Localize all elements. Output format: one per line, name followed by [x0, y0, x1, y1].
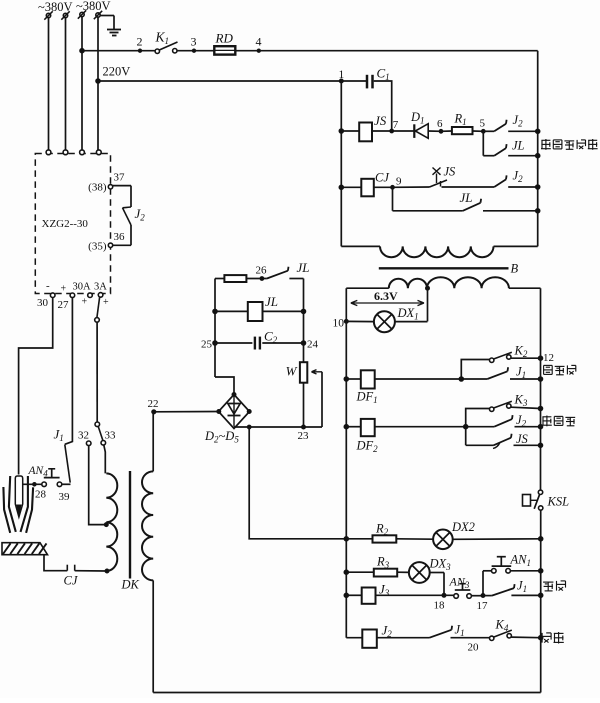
svg-text:W: W [286, 364, 298, 379]
label protective-gas-delay [541, 139, 598, 150]
node 24 [307, 339, 319, 351]
svg-text:DX2: DX2 [451, 520, 475, 534]
svg-text:6.3V: 6.3V [374, 289, 398, 303]
svg-text:220V: 220V [103, 65, 131, 79]
contact JS (delayed close) [466, 432, 541, 449]
relay coil J2 [346, 623, 429, 648]
wire osc left vertical [213, 279, 218, 378]
svg-text:5: 5 [480, 118, 486, 130]
node 12 label [543, 352, 554, 364]
potentiometer W [286, 362, 322, 427]
label ~380V (lines 1-2) [38, 0, 73, 14]
wire selector down [96, 322, 98, 422]
node 6 [437, 118, 443, 133]
node 25 [201, 339, 213, 351]
svg-text:C1: C1 [377, 66, 390, 83]
svg-text:AN1: AN1 [510, 553, 531, 569]
svg-text:R2: R2 [375, 522, 389, 538]
node 39 label [59, 491, 71, 503]
svg-text:30: 30 [37, 297, 49, 309]
svg-text:J2: J2 [135, 206, 146, 223]
wire right rail (control) [535, 51, 540, 247]
svg-text:25: 25 [201, 339, 213, 351]
DK primary winding [104, 473, 117, 573]
svg-text:~380V: ~380V [76, 0, 111, 13]
wire [289, 278, 303, 280]
contact J2 (gas delay row) [483, 113, 537, 131]
svg-text:KSL: KSL [547, 495, 570, 509]
node 23 [298, 425, 310, 442]
node 26 label [256, 265, 268, 277]
terminal (35)/36 [88, 231, 125, 253]
svg-text:9: 9 [396, 176, 402, 188]
wire right rail (below KSL) [538, 510, 543, 692]
workpiece [2, 543, 48, 555]
box bottom terminal 30A [73, 282, 93, 308]
svg-text:JS: JS [516, 432, 529, 446]
svg-text:JL: JL [297, 260, 310, 275]
svg-text:AN3: AN3 [449, 575, 470, 591]
wire bottom return [153, 692, 541, 694]
node 28 label [35, 489, 47, 501]
svg-text:JL: JL [460, 190, 473, 205]
box top terminal 2 [63, 150, 68, 155]
terminal (38)/37 [88, 172, 125, 194]
supply terminal L3 [78, 10, 86, 18]
wire left rail (control) [339, 81, 344, 246]
wire W bottom [303, 383, 305, 427]
box bottom terminal 30 [37, 280, 55, 309]
resistor R3 [346, 555, 397, 577]
svg-text:3A: 3A [94, 282, 107, 293]
svg-text:27: 27 [58, 299, 70, 311]
switch K3 [490, 393, 541, 412]
svg-text:+: + [103, 297, 109, 308]
svg-text:J2: J2 [382, 623, 393, 640]
switch K2 [490, 344, 541, 363]
resistor R2 [346, 522, 396, 543]
svg-text:J2: J2 [513, 169, 524, 185]
wire workpiece to CJ [44, 555, 67, 571]
contact J1 (torch) [54, 427, 71, 483]
label welding [542, 632, 564, 644]
switch K4 [490, 618, 541, 641]
svg-text:K3: K3 [514, 393, 528, 409]
contact J2 (protect gas) [494, 413, 540, 429]
wire phase 4 [97, 17, 99, 150]
svg-text:K2: K2 [514, 344, 528, 360]
svg-text:3: 3 [191, 35, 197, 49]
node 18 [434, 593, 447, 611]
torch electrode [15, 476, 22, 517]
node 1 [339, 69, 345, 83]
supply terminal L4 [94, 11, 102, 19]
wire 32 to DK tap [89, 446, 105, 525]
pushbutton AN1 [483, 553, 541, 574]
svg-text:CJ: CJ [375, 171, 390, 185]
lamp DX3 [397, 557, 451, 583]
svg-text:-: - [46, 280, 50, 292]
relay coil DF1 [346, 370, 487, 405]
svg-text:K1: K1 [155, 30, 170, 47]
node 7 [390, 119, 399, 133]
contact CJ (main) [64, 565, 107, 588]
wire K2 branch [461, 360, 489, 380]
svg-text:26: 26 [256, 265, 268, 277]
svg-text:32: 32 [78, 430, 89, 442]
wire phase 2 [65, 18, 67, 150]
svg-text:(35): (35) [88, 241, 107, 253]
svg-text:33: 33 [105, 430, 117, 442]
wire node5 down [482, 131, 484, 155]
svg-text:R3: R3 [376, 555, 390, 571]
contact J1 (arc maintain) [483, 579, 541, 596]
transformer B secondary [346, 277, 540, 288]
svg-text:20: 20 [468, 642, 480, 654]
secondary tap [426, 286, 430, 321]
wire [246, 277, 267, 281]
svg-text:39: 39 [59, 491, 71, 503]
wire osc to bridge top [215, 377, 234, 395]
label protect-gas (row) [542, 416, 575, 427]
selector contact 30A/3A [95, 297, 100, 322]
box top terminal 3 [80, 150, 85, 155]
svg-text:DX1: DX1 [397, 306, 419, 322]
node 17 [477, 594, 489, 613]
wire node9 down [392, 187, 394, 211]
svg-text:+: + [61, 284, 67, 295]
svg-text:2: 2 [137, 35, 143, 49]
svg-text:DX3: DX3 [429, 557, 452, 573]
wire to right rail [235, 50, 537, 52]
svg-text:J2: J2 [513, 113, 524, 129]
svg-text:K4: K4 [495, 618, 509, 634]
svg-text:JS: JS [374, 113, 387, 128]
lamp DX1 [346, 306, 427, 332]
contact JL (row 4) [393, 190, 538, 211]
svg-text:36: 36 [114, 231, 126, 243]
wire [177, 50, 214, 52]
svg-text:18: 18 [434, 600, 446, 612]
switch K1 [155, 30, 178, 54]
bridge rectifier D2~D5 [217, 393, 251, 429]
wire node22 down [152, 414, 154, 472]
box top terminal 4 [96, 150, 101, 155]
wire node22 to bridge [154, 411, 219, 413]
node 22 [148, 398, 159, 414]
node 20 label [468, 642, 480, 654]
node 3 [191, 35, 197, 53]
capacitor C2 [215, 329, 304, 350]
svg-text:J1: J1 [455, 623, 465, 639]
rectifier unit XZG2-30 (dashed box) [35, 154, 110, 294]
pushbutton AN4 [23, 465, 71, 487]
transformer B primary [341, 246, 537, 257]
box top terminal 1 [46, 150, 51, 155]
svg-text:DF2: DF2 [356, 439, 379, 455]
svg-text:~380V: ~380V [38, 0, 73, 14]
relay coil DF2 [346, 419, 494, 454]
svg-text:JL: JL [512, 139, 525, 153]
node 9 [391, 176, 402, 190]
svg-text:(38): (38) [88, 182, 107, 194]
svg-text:J1: J1 [517, 579, 527, 595]
wire terminal30 to electrode [19, 298, 53, 475]
wire node18 vertical [443, 573, 445, 596]
label 6.3V [351, 289, 424, 306]
svg-text:JS: JS [444, 165, 457, 179]
wire right rail (upper lower) [538, 288, 543, 490]
resistor R1 [441, 112, 483, 135]
contact J1 (ion gas) [487, 365, 540, 381]
wire osc right vertical [301, 279, 306, 363]
svg-text:DK: DK [121, 578, 140, 592]
node 5 [480, 118, 486, 134]
node 4 [256, 35, 262, 53]
diode D1 [410, 110, 441, 138]
svg-text:D1: D1 [410, 110, 425, 126]
svg-text:JL: JL [265, 294, 278, 309]
relay coil JL [215, 294, 304, 321]
wire phase 3 [81, 17, 83, 150]
wire feeder segment + junction [80, 48, 155, 53]
wire [393, 186, 430, 188]
label D2~D5 [204, 429, 239, 445]
capacitor C1 [341, 66, 391, 130]
label 220V [103, 65, 131, 79]
svg-text:24: 24 [307, 339, 319, 351]
wire 220V line [96, 79, 342, 84]
wire secondary left down [345, 288, 347, 321]
wire K3 branch [466, 409, 490, 446]
svg-text:D2~D5: D2~D5 [204, 429, 239, 445]
svg-text:6: 6 [437, 118, 443, 130]
contact J2 (37-36 link) [113, 186, 146, 246]
svg-text:12: 12 [543, 352, 554, 364]
supply terminal L2 [61, 11, 69, 19]
svg-text:+: + [82, 297, 88, 308]
svg-text:DF1: DF1 [356, 390, 378, 406]
wire left rail (lower) [344, 321, 349, 637]
wire bridge to R2 row [249, 427, 346, 539]
box bottom terminal 27 [58, 284, 75, 312]
contact J1 (weld row) [430, 623, 490, 639]
svg-text:CJ: CJ [64, 574, 79, 588]
svg-text:XZG2--30: XZG2--30 [42, 218, 89, 230]
svg-text:37: 37 [114, 172, 126, 184]
svg-text:R1: R1 [454, 112, 467, 128]
svg-text:23: 23 [298, 430, 310, 442]
transformer B core [379, 262, 519, 276]
svg-text:J1: J1 [54, 427, 64, 444]
relay coil J3 [346, 582, 454, 604]
node 2 [137, 35, 143, 53]
contact JS (NC delayed) [430, 165, 495, 188]
node 10 [333, 318, 349, 330]
ground [100, 16, 121, 36]
relay coil JS [341, 113, 414, 141]
svg-text:RD: RD [215, 31, 234, 46]
svg-text:1: 1 [339, 69, 345, 81]
torch nozzle [3, 476, 33, 533]
svg-text:J1: J1 [516, 365, 526, 381]
relay coil CJ [341, 171, 392, 197]
pressure switch KSL [523, 490, 570, 510]
svg-text:10: 10 [333, 318, 345, 330]
wire osc top row [215, 278, 224, 280]
svg-text:B: B [511, 262, 519, 276]
wire AN1 branch down [482, 571, 484, 596]
svg-text:17: 17 [477, 600, 489, 612]
selector contact 32/33 upper [95, 422, 103, 441]
svg-text:AN4: AN4 [28, 465, 49, 479]
box bottom terminal 3A [94, 282, 109, 309]
label arc-maintain [543, 581, 565, 591]
svg-text:7: 7 [393, 119, 399, 131]
svg-text:28: 28 [35, 489, 47, 501]
fuse RD [214, 31, 235, 55]
wire bridge bottom row [234, 425, 322, 429]
DK core [129, 471, 131, 579]
svg-text:4: 4 [256, 35, 262, 49]
label ~380V (lines 3-4) [76, 0, 111, 13]
supply terminal L1 [44, 11, 52, 19]
contact J2 (row CJ) [494, 169, 538, 188]
label DK [121, 578, 140, 592]
contact JL (osc) [267, 260, 310, 279]
pushbutton AN3 [449, 575, 484, 599]
svg-text:30A: 30A [73, 282, 92, 293]
label ion-gas [544, 365, 576, 374]
wire terminal27 down [65, 298, 73, 445]
svg-text:22: 22 [148, 398, 159, 410]
terminal 32 [78, 430, 91, 446]
wire phase 1 [48, 18, 50, 150]
wire DK secondary to bottom [152, 580, 154, 692]
contact JL (row 2) [483, 139, 537, 156]
DK secondary winding [142, 471, 153, 580]
lamp DX2 [396, 520, 540, 549]
terminal 33 [101, 430, 116, 446]
resistor (osc) [224, 275, 246, 282]
wire 33 to DK winding [104, 445, 106, 473]
